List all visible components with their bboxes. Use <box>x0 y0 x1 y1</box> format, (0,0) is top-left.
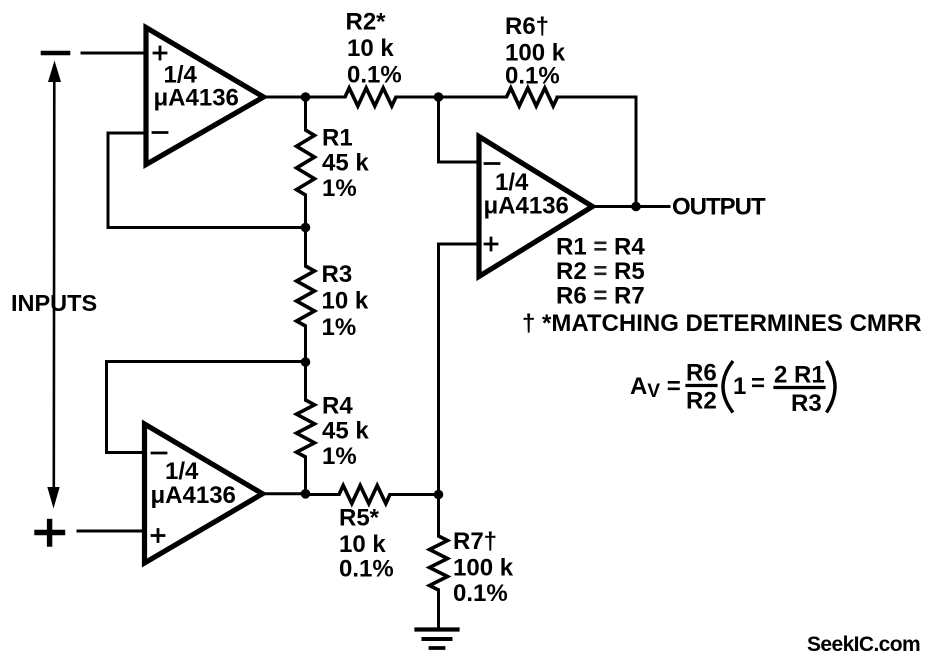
svg-text:0.1%: 0.1% <box>505 63 560 90</box>
U1 feedback wire from inverting input to node B <box>108 133 306 228</box>
watermark SeekIC.com <box>807 633 920 656</box>
note R2 = R5 <box>556 258 645 285</box>
label R4 value 45 k <box>322 418 369 445</box>
svg-text:0.1%: 0.1% <box>339 556 394 583</box>
node F junction (R5 / R7 / U2 non-inverting) <box>434 490 444 500</box>
svg-text:R4: R4 <box>322 393 353 420</box>
wire upper input to U1 non-inverting input <box>82 52 146 55</box>
svg-text:10 k: 10 k <box>322 288 369 315</box>
label R7 tolerance 0.1% <box>453 580 508 607</box>
label R3 value 10 k <box>322 288 369 315</box>
node E junction (U3 out / R4 / R5) <box>301 489 311 499</box>
svg-text:R3: R3 <box>322 261 353 288</box>
wire node C to R6 <box>439 96 507 99</box>
svg-text:2 R1: 2 R1 <box>774 362 825 389</box>
U1 inverting input mark (-) <box>153 131 167 134</box>
label R6 value 100 k <box>505 40 566 67</box>
svg-text:45 k: 45 k <box>322 418 369 445</box>
svg-text:SeekIC.com: SeekIC.com <box>807 633 920 656</box>
svg-text:0.1%: 0.1% <box>453 580 508 607</box>
resistor R5 zigzag <box>339 486 390 504</box>
svg-text:0.1%: 0.1% <box>347 62 402 89</box>
svg-text:1%: 1% <box>322 175 357 202</box>
wire R5 to node F <box>390 493 439 496</box>
U1 non-inverting input mark (+) <box>154 47 166 59</box>
wire node D down to R4 <box>304 362 307 400</box>
wire lower input to U3 non-inverting input <box>78 530 144 533</box>
label R5 value 10 k <box>339 531 386 558</box>
label OUTPUT <box>672 194 766 221</box>
wire R2 to node C <box>396 96 439 99</box>
node B junction (R1 / R3 / U1 feedback) <box>301 223 311 233</box>
label INPUTS <box>11 290 97 316</box>
label R1 value 45 k <box>322 150 369 177</box>
svg-text:† *MATCHING DETERMINES CMRR: † *MATCHING DETERMINES CMRR <box>522 310 922 337</box>
U3 label 1/4 <box>165 458 199 485</box>
svg-text:AV =: AV = <box>630 373 681 402</box>
op-amp U2 (1/4 uA4136) triangle <box>479 137 593 277</box>
node D junction (R3 / R4 / U3 feedback) <box>301 357 311 367</box>
wire node A to R2 <box>306 96 346 99</box>
svg-text:45 k: 45 k <box>322 150 369 177</box>
note R1 = R4 <box>556 234 645 261</box>
label R5 tolerance 0.1% <box>339 556 394 583</box>
resistor R4 zigzag <box>297 400 315 457</box>
wire node F down to R7 <box>437 495 440 537</box>
svg-text:μA4136: μA4136 <box>151 482 236 509</box>
label R4 tolerance 1% <box>322 443 357 470</box>
resistor R7 zigzag <box>430 536 448 590</box>
INPUTS span arrow (double-headed) <box>47 61 61 509</box>
U2 label uA4136 <box>484 193 569 220</box>
wire node C down to U2 inverting input <box>439 97 480 162</box>
label R7 value 100 k <box>453 555 514 582</box>
svg-text:1/4: 1/4 <box>165 458 199 485</box>
svg-text:1: 1 <box>733 373 746 400</box>
label R1 <box>322 125 353 152</box>
svg-text:100 k: 100 k <box>453 555 514 582</box>
wire U1 output to node A <box>261 96 306 99</box>
U2 label 1/4 <box>495 169 529 196</box>
ground symbol <box>417 630 458 649</box>
label R4 <box>322 393 353 420</box>
U2 inverting input mark (-) <box>485 162 499 165</box>
resistor R6 zigzag <box>507 88 558 106</box>
label R6 tolerance 0.1% <box>505 63 560 90</box>
svg-text:=: = <box>751 370 765 397</box>
U3 inverting input mark (-) <box>152 452 166 455</box>
U1 label uA4136 <box>154 85 239 112</box>
label R6&#8224; <box>505 13 549 40</box>
wire R3 to node D <box>304 326 307 362</box>
wire U2 output to output node <box>590 205 636 208</box>
U2 non-inverting input mark (+) <box>485 238 497 250</box>
svg-text:R3: R3 <box>791 390 822 417</box>
wire R4 to node E <box>304 457 307 495</box>
wire R7 to ground <box>437 590 440 629</box>
label R2* <box>346 9 387 36</box>
svg-text:OUTPUT: OUTPUT <box>672 194 766 221</box>
U2 non-inverting input wire down to node F <box>439 244 480 495</box>
svg-text:R2: R2 <box>686 388 717 415</box>
resistor R2 zigzag <box>345 88 396 106</box>
node C junction (R2 / R6 / U2 inverting) <box>434 92 444 102</box>
U3 feedback wire from inverting input to node D <box>107 362 306 453</box>
svg-text:R1 = R4: R1 = R4 <box>556 234 645 261</box>
wire node B down to R3 <box>304 228 307 267</box>
note R6 = R7 <box>556 283 645 310</box>
svg-text:10 k: 10 k <box>339 531 386 558</box>
svg-text:INPUTS: INPUTS <box>11 290 97 316</box>
note matching determines CMRR <box>522 310 922 337</box>
svg-text:R6: R6 <box>686 360 717 387</box>
svg-text:R2*: R2* <box>346 9 387 36</box>
svg-text:R6†: R6† <box>505 13 549 40</box>
op-amp U1 (1/4 uA4136) triangle <box>146 28 264 165</box>
node A junction (U1 out / R2 / R1) <box>301 92 311 102</box>
U3 label uA4136 <box>151 482 236 509</box>
op-amp U3 (1/4 uA4136) triangle <box>145 424 263 563</box>
label R2 value 10 k <box>347 35 394 62</box>
input terminal minus (upper input) <box>43 51 68 56</box>
wire R6 to right corner and down to output node <box>557 97 636 207</box>
formula Av gain <box>630 360 835 418</box>
svg-text:1%: 1% <box>322 443 357 470</box>
wire node A down to R1 <box>304 97 307 130</box>
output node junction <box>631 202 641 212</box>
svg-text:10 k: 10 k <box>347 35 394 62</box>
svg-text:R6 = R7: R6 = R7 <box>556 283 645 310</box>
label R1 tolerance 1% <box>322 175 357 202</box>
resistor R3 zigzag <box>297 266 315 326</box>
svg-text:R7†: R7† <box>453 528 497 555</box>
wire R1 to node B <box>304 195 307 228</box>
U3 non-inverting input mark (+) <box>152 530 164 542</box>
wire U3 output to node E <box>260 492 306 495</box>
wire output node to OUTPUT label <box>636 205 669 208</box>
svg-text:R1: R1 <box>322 125 353 152</box>
svg-text:R5*: R5* <box>339 505 380 532</box>
resistor R1 zigzag <box>297 130 315 195</box>
svg-text:R2 = R5: R2 = R5 <box>556 258 645 285</box>
label R3 tolerance 1% <box>322 314 357 341</box>
svg-text:μA4136: μA4136 <box>484 193 569 220</box>
wire node E to R5 <box>306 493 340 496</box>
label R2 tolerance 0.1% <box>347 62 402 89</box>
U1 label 1/4 <box>164 62 198 89</box>
input terminal plus (lower input) <box>37 522 63 545</box>
label R3 <box>322 261 353 288</box>
svg-text:μA4136: μA4136 <box>154 85 239 112</box>
label R5* <box>339 505 380 532</box>
svg-text:1%: 1% <box>322 314 357 341</box>
label R7&#8224; <box>453 528 497 555</box>
